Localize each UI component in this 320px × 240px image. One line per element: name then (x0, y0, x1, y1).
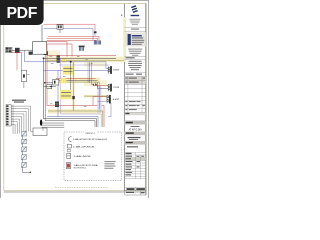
svg-text:H-MST: H-MST (113, 70, 120, 72)
svg-text:H-MST: H-MST (113, 99, 120, 101)
svg-text:PDF: PDF (6, 5, 37, 22)
svg-text:AT AP D.DIA: AT AP D.DIA (129, 128, 142, 131)
svg-text:WITH ENCL: WITH ENCL (74, 168, 87, 170)
svg-text:1-AB+4P-MCB: 1-AB+4P-MCB (73, 145, 95, 148)
svg-text:1-AB+4P-MCCB-3P-100A+ELR: 1-AB+4P-MCCB-3P-100A+ELR (73, 138, 108, 141)
svg-text:1-AB+MCB: 1-AB+MCB (74, 155, 92, 158)
svg-text:1-AB+4-MCB-2P-100A: 1-AB+4-MCB-2P-100A (74, 164, 99, 167)
svg-text:ITEM NO-1: ITEM NO-1 (85, 133, 95, 135)
svg-text:ST-2M: ST-2M (113, 87, 119, 89)
